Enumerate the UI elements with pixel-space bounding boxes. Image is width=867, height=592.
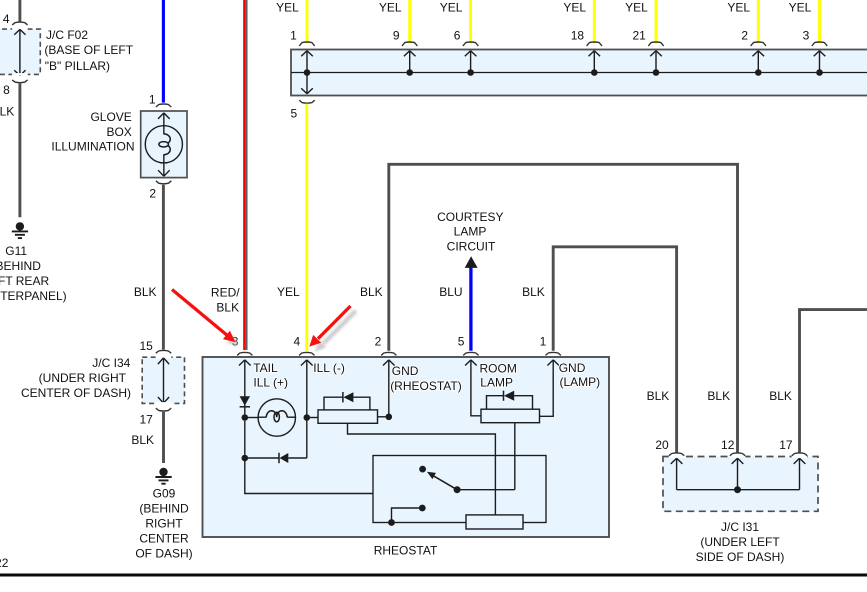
wire YEL to bus pin 3	[818, 0, 821, 43]
svg-text:"B" PILLAR): "B" PILLAR)	[45, 59, 110, 73]
svg-text:OF DASH): OF DASH)	[135, 546, 192, 560]
label GND (RHEOSTAT)	[390, 364, 462, 393]
resistor R2 (room lamp)	[481, 409, 540, 423]
svg-text:2: 2	[741, 28, 748, 42]
svg-text:18: 18	[571, 28, 585, 42]
wire R1 tap to slider resistor	[348, 423, 496, 515]
node B (lamp/pin4 junction)	[304, 414, 311, 421]
svg-text:YEL: YEL	[276, 1, 299, 15]
svg-text:5: 5	[291, 106, 298, 120]
pin 1 label (glove box)	[149, 93, 156, 107]
svg-text:BLK: BLK	[134, 285, 157, 299]
connector pin 5 (rheostat)	[463, 352, 478, 355]
svg-text:4: 4	[3, 12, 10, 26]
wire YEL to bus pin 18	[593, 0, 596, 43]
diode D2 bypass over R1	[324, 392, 370, 410]
svg-text:BLK: BLK	[522, 285, 545, 299]
lamp symbol (rheostat illumination)	[258, 399, 295, 436]
resistor R3 (slider)	[466, 515, 523, 529]
wire BLK rheostat pin 2 to J/C I31 pin 12	[389, 164, 738, 452]
wire (top) to J/C F02 pin 4	[18, 0, 21, 22]
svg-text:YEL: YEL	[625, 1, 648, 15]
svg-text:YEL: YEL	[789, 1, 812, 15]
wire node A to node D	[244, 421, 246, 455]
label BLK (rheostat pin 1 wire)	[522, 285, 545, 299]
J/C I31 pin 17 internal arrow	[794, 458, 806, 489]
svg-text:YEL: YEL	[727, 1, 750, 15]
label BLK (J/C I34 wire)	[131, 433, 154, 447]
connector pin 2 (bus)	[751, 42, 766, 46]
svg-text:ROOM: ROOM	[480, 361, 517, 375]
svg-text:2: 2	[149, 186, 156, 200]
wire YEL to bus pin 1	[306, 0, 309, 43]
svg-text:2: 2	[375, 335, 382, 349]
pin 5 label (rheostat)	[458, 335, 465, 349]
svg-text:G11: G11	[5, 244, 27, 258]
svg-text:G09: G09	[153, 486, 176, 500]
pin 9 label (bus)	[393, 28, 400, 42]
svg-text:BLK: BLK	[0, 105, 14, 119]
label COURTESY LAMP CIRCUIT	[437, 210, 503, 254]
pin 8 label	[3, 83, 10, 97]
svg-text:(BEHIND: (BEHIND	[0, 259, 41, 273]
switch SW1 blade	[427, 472, 457, 490]
connector pin 8 (J/C F02)	[12, 73, 28, 83]
wire node D to switch box	[245, 458, 373, 494]
pin 15 label	[139, 339, 153, 353]
svg-text:LAMP: LAMP	[454, 225, 487, 239]
pin 21 label (bus)	[632, 28, 646, 42]
label YEL (rheostat pin 4 wire)	[277, 285, 300, 299]
resistor R1 (main dimming)	[318, 410, 378, 423]
label YEL (pin 21)	[625, 1, 648, 15]
wire node B to resistor R1	[307, 417, 318, 419]
pin 3 label (rheostat)	[232, 335, 239, 349]
pin 3 label (bus)	[803, 28, 810, 42]
label TAIL ILL (+)	[253, 361, 288, 389]
node D (lower pin3 branch)	[242, 455, 249, 462]
label YEL (pin 6)	[440, 1, 463, 15]
label J/C I34	[21, 356, 131, 400]
svg-text:1: 1	[290, 28, 297, 42]
label GLOVE BOX ILLUMINATION	[51, 110, 134, 154]
wire BLK J/C I34 to G09	[162, 412, 165, 463]
svg-text:(BEHIND: (BEHIND	[139, 501, 189, 515]
connector pin 21 (bus)	[648, 42, 663, 46]
pin 2 internal arrow	[383, 360, 395, 417]
node F (J/C I31 center)	[734, 486, 741, 493]
label 22 (page edge)	[0, 556, 9, 570]
ground G11 symbol	[12, 222, 28, 238]
diode D4 bypass over R2	[487, 391, 533, 410]
label GND (LAMP)	[559, 361, 600, 389]
node E (switch box bottom)	[388, 519, 395, 526]
connector pin 1 (glove box)	[156, 104, 171, 107]
bus pin 2 internal arrow	[753, 51, 765, 76]
node C (R1/pin2 junction)	[386, 414, 393, 421]
bus pin 6 internal arrow	[465, 51, 477, 76]
svg-text:CENTER OF DASH): CENTER OF DASH)	[21, 386, 131, 400]
wire SW1 pivot to R2 tap	[457, 489, 515, 491]
wire BLK glove box to J/C I34	[162, 185, 165, 350]
svg-text:8: 8	[3, 83, 10, 97]
svg-text:SIDE OF DASH): SIDE OF DASH)	[696, 550, 785, 564]
bus pin 21 internal arrow	[650, 51, 662, 76]
svg-text:BLK: BLK	[360, 285, 383, 299]
connector pin 3 (rheostat)	[237, 352, 252, 355]
courtesy arrow head	[465, 256, 478, 268]
svg-text:GND: GND	[392, 364, 419, 378]
switch box (rheostat control)	[373, 456, 546, 523]
ground G09 symbol	[155, 468, 171, 484]
pin 6 label (bus)	[454, 28, 461, 42]
svg-text:(UNDER LEFT: (UNDER LEFT	[700, 535, 780, 549]
J/C I31 pin 20 internal arrow	[671, 458, 683, 489]
pin 2 label (rheostat)	[375, 335, 382, 349]
svg-text:3: 3	[803, 28, 810, 42]
connector pin 2 (glove box)	[156, 181, 171, 184]
wire YEL bus pin 5 to rheostat pin 4	[305, 104, 308, 351]
diode D1 (tail ill input)	[240, 393, 250, 415]
svg-text:BLK: BLK	[131, 433, 154, 447]
connector pin 4 (J/C F02)	[12, 22, 28, 30]
connector pin 1 (bus)	[299, 42, 314, 46]
wire BLK J/C F02 to G11	[18, 83, 21, 217]
svg-text:YEL: YEL	[277, 285, 300, 299]
junction block bus (top)	[291, 50, 867, 96]
wire RED/BLK to rheostat pin 3	[245, 0, 247, 350]
glove box illumination lamp box	[141, 111, 187, 178]
label YEL (pin 2)	[727, 1, 750, 15]
connector pin 18 (bus)	[587, 42, 602, 46]
page separator line	[0, 573, 867, 576]
junction connector J/C F02 box	[0, 29, 40, 74]
svg-text:TAIL: TAIL	[253, 361, 278, 375]
wire YEL to bus pin 6	[469, 0, 472, 43]
junction connector J/C I34 box	[142, 357, 184, 403]
label ILL (-)	[313, 361, 345, 375]
connector pin 12 (J/C I31)	[730, 453, 746, 458]
svg-text:BLK: BLK	[647, 389, 670, 403]
lamp symbol (glove box)	[145, 113, 182, 176]
red annotation arrow 2 shadow	[315, 311, 356, 352]
svg-text:BLU: BLU	[439, 285, 462, 299]
wire BLK rheostat pin 1 to J/C I31 pin 20	[553, 247, 676, 453]
label BLK (pin 12 wire)	[707, 389, 730, 403]
pin 4 label (rheostat)	[294, 335, 301, 349]
wire node A to lamp	[245, 414, 258, 417]
label BLK (pin 17 wire)	[769, 389, 792, 403]
wire BLU to glove box pin 1	[162, 0, 165, 103]
wire BLK right edge to J/C I31 pin 17	[800, 310, 867, 453]
connector pin 2 (rheostat)	[381, 352, 396, 355]
switch SW1 contact (upper)	[419, 466, 426, 473]
svg-text:CENTER: CENTER	[139, 531, 189, 545]
connector pin 6 (bus)	[463, 42, 478, 46]
svg-text:RIGHT: RIGHT	[145, 516, 183, 530]
svg-text:17: 17	[139, 412, 153, 426]
label RED/ BLK	[211, 285, 240, 314]
pin 5 label (bus)	[291, 106, 298, 120]
svg-text:21: 21	[632, 28, 646, 42]
wire YEL to bus pin 2	[757, 0, 760, 43]
label ROOM LAMP	[480, 361, 517, 389]
connector pin 17 (J/C I31)	[792, 453, 808, 458]
label BLK (left edge)	[0, 105, 14, 119]
connector pin 4 (rheostat)	[299, 352, 314, 355]
svg-text:J/C I34: J/C I34	[92, 356, 130, 370]
pin 12 label (J/C I31)	[721, 438, 735, 452]
junction connector J/C I31 box	[663, 457, 818, 512]
svg-text:CIRCUIT: CIRCUIT	[447, 240, 496, 254]
pin 5 internal arrow	[465, 360, 481, 416]
pin 1 label (rheostat)	[540, 335, 547, 349]
label YEL (pin 1)	[276, 1, 299, 15]
svg-text:YEL: YEL	[379, 1, 402, 15]
label YEL (pin 18)	[563, 1, 586, 15]
bus pin 1 internal double arrow	[301, 51, 313, 94]
svg-text:(BASE OF LEFT: (BASE OF LEFT	[44, 43, 133, 57]
J/C I31 pin 12 internal arrow	[732, 458, 744, 489]
svg-text:12: 12	[721, 438, 735, 452]
label G09	[135, 486, 192, 560]
pin 1 label (bus)	[290, 28, 297, 42]
svg-text:RHEOSTAT: RHEOSTAT	[374, 543, 438, 557]
svg-text:YEL: YEL	[563, 1, 586, 15]
label BLK (glove box wire)	[134, 285, 157, 299]
svg-text:YEL: YEL	[440, 1, 463, 15]
svg-text:GND: GND	[559, 361, 586, 375]
svg-text:J/C I31: J/C I31	[721, 520, 759, 534]
svg-text:(LAMP): (LAMP)	[560, 375, 601, 389]
connector pin 5 (bus bottom)	[299, 100, 314, 103]
svg-text:(RHEOSTAT): (RHEOSTAT)	[390, 379, 462, 393]
bus pin 9 internal arrow	[404, 51, 416, 76]
wire R1 to node C	[378, 416, 386, 418]
svg-text:17: 17	[779, 438, 793, 452]
diode D3 (feedback)	[245, 453, 307, 463]
svg-text:6: 6	[454, 28, 461, 42]
connector pin 1 (rheostat)	[546, 352, 561, 355]
label BLU	[439, 285, 462, 299]
pin 20 label (J/C I31)	[655, 438, 669, 452]
label G11	[0, 244, 67, 303]
label YEL (pin 3)	[789, 1, 812, 15]
svg-text:1: 1	[149, 93, 156, 107]
svg-text:LEFT REAR: LEFT REAR	[0, 274, 49, 288]
svg-text:J/C F02: J/C F02	[46, 28, 88, 42]
connector pin 3 (bus)	[812, 42, 827, 46]
pin 4 label	[3, 12, 10, 26]
wire BLU courtesy lamp circuit	[469, 266, 472, 351]
svg-text:4: 4	[294, 335, 301, 349]
svg-text:BLK: BLK	[216, 301, 239, 315]
wire SW2 contact stub	[392, 508, 423, 523]
red annotation arrow 2 (points to pin 4)	[309, 306, 350, 347]
label RHEOSTAT	[374, 543, 438, 557]
pin 17 label (J/C I31)	[779, 438, 793, 452]
svg-text:QUARTERPANEL): QUARTERPANEL)	[0, 289, 67, 303]
svg-text:5: 5	[458, 335, 465, 349]
connector pin 9 (bus)	[402, 42, 417, 46]
svg-text:LAMP: LAMP	[480, 376, 513, 390]
svg-text:BOX: BOX	[106, 125, 131, 139]
wire R2 bottom tap to switch	[514, 423, 516, 490]
switch SW2 contact	[419, 505, 426, 512]
svg-text:ILL (-): ILL (-)	[313, 361, 345, 375]
node A (pin3/lamp junction)	[242, 414, 249, 421]
svg-text:15: 15	[139, 339, 153, 353]
rheostat box	[203, 357, 610, 537]
svg-text:GLOVE: GLOVE	[90, 110, 131, 124]
J/C F02 internal double arrow	[14, 29, 25, 75]
svg-text:22: 22	[0, 556, 9, 570]
svg-text:ILLUMINATION: ILLUMINATION	[51, 140, 134, 154]
pin 17 label (J/C I34)	[139, 412, 153, 426]
svg-text:ILL (+): ILL (+)	[253, 376, 288, 390]
bus pin 3 internal arrow	[814, 51, 826, 76]
red annotation arrow 1 shadow	[227, 335, 239, 346]
connector pin 20 (J/C I31)	[669, 453, 685, 458]
switch SW1 pivot	[454, 486, 461, 493]
pin 3 internal arrow	[239, 360, 251, 393]
svg-text:9: 9	[393, 28, 400, 42]
label J/C F02	[44, 28, 133, 73]
J/C I31 internal bus line	[677, 489, 800, 491]
J/C I34 internal double arrow	[158, 358, 169, 403]
connector pin 15 (J/C I34)	[156, 350, 172, 358]
label J/C I31	[696, 520, 785, 564]
svg-text:RED/: RED/	[211, 285, 240, 299]
pin 18 label (bus)	[571, 28, 585, 42]
pin 2 label (bus)	[741, 28, 748, 42]
svg-text:(UNDER RIGHT: (UNDER RIGHT	[39, 371, 127, 385]
connector pin 17 (J/C I34)	[156, 402, 172, 411]
svg-text:20: 20	[655, 438, 669, 452]
label BLK (pin 20 wire)	[647, 389, 670, 403]
label BLK (rheostat pin 2 wire)	[360, 285, 383, 299]
wire YEL to bus pin 21	[655, 0, 658, 43]
svg-text:1: 1	[540, 335, 547, 349]
svg-text:BLK: BLK	[769, 389, 792, 403]
pin 4 internal arrow	[301, 360, 313, 458]
svg-text:COURTESY: COURTESY	[437, 210, 503, 224]
label YEL (pin 9)	[379, 1, 402, 15]
bus pin 18 internal arrow	[589, 51, 601, 76]
wire YEL to bus pin 9	[408, 0, 411, 43]
pin 1 internal arrow	[540, 360, 560, 416]
svg-text:BLK: BLK	[707, 389, 730, 403]
blur filter def	[0, 0, 1, 1]
red annotation arrow 1 (points to pin 3)	[172, 290, 235, 343]
pin 2 label (glove box)	[149, 186, 156, 200]
